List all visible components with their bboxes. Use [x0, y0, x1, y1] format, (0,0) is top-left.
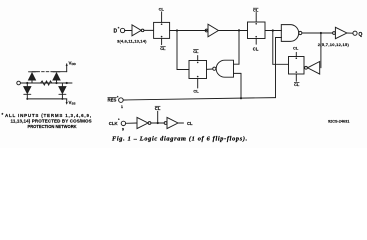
svg-text:11,13,14) PROTECTED BY COS/MOS: 11,13,14) PROTECTED BY COS/MOS: [11, 119, 92, 124]
svg-text:*: *: [118, 26, 120, 31]
svg-text:RES: RES: [108, 98, 117, 103]
svg-text:CL: CL: [253, 46, 259, 51]
svg-text:3(4,6,11,13,14): 3(4,6,11,13,14): [117, 39, 147, 44]
svg-text:9: 9: [122, 128, 124, 132]
svg-text:CL: CL: [159, 6, 165, 11]
svg-text:VDD: VDD: [69, 60, 77, 66]
svg-text:Q: Q: [358, 32, 362, 38]
svg-text:CL: CL: [293, 45, 299, 50]
svg-text:CL: CL: [155, 106, 161, 111]
svg-text:ALL INPUTS (TERMS 1,3,4,6,9,: ALL INPUTS (TERMS 1,3,4,6,9,: [5, 113, 92, 118]
svg-text:*: *: [118, 117, 120, 122]
svg-text:1: 1: [121, 105, 123, 109]
svg-text:Fig. 1 – Logic diagram (1 of 6: Fig. 1 – Logic diagram (1 of 6 flip-flop…: [112, 136, 248, 143]
svg-text:2(5,7,10,12,15): 2(5,7,10,12,15): [318, 42, 350, 47]
svg-text:VSS: VSS: [69, 100, 76, 106]
svg-text:CL: CL: [193, 89, 199, 94]
svg-text:CL: CL: [187, 121, 193, 126]
svg-text:*: *: [2, 112, 4, 117]
svg-text:92CS-24631: 92CS-24631: [328, 120, 349, 124]
svg-text:PROTECTION NETWORK: PROTECTION NETWORK: [28, 124, 77, 129]
